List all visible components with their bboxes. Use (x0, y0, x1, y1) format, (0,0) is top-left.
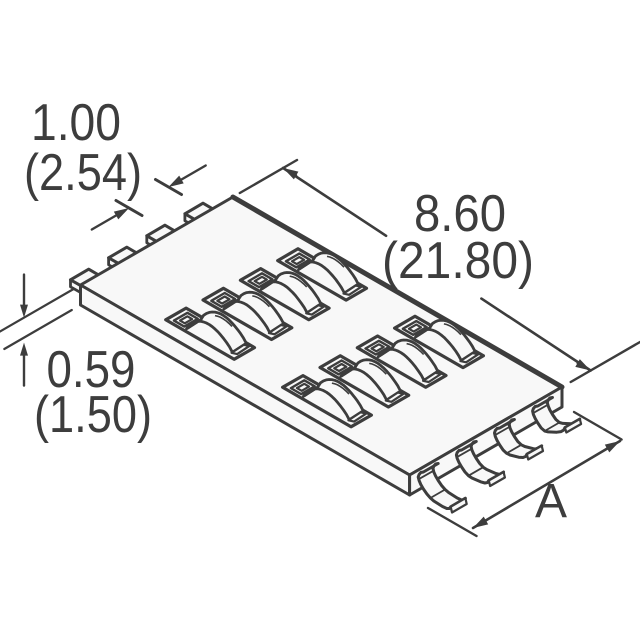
contact 3 arch base edge (263, 280, 277, 289)
dimension 1.00 tick upper (156, 180, 182, 195)
gull-wing leg 4 (533, 398, 580, 433)
svg-text:(1.50): (1.50) (34, 386, 152, 444)
contact 8 anchor plate (403, 321, 427, 335)
contact 7 arch base edge (379, 348, 393, 357)
contact 7 spring arch (378, 340, 438, 380)
contact 7 anchor plate (366, 341, 390, 355)
contact 8 spring arch (415, 320, 475, 360)
body NW ledge line (81, 204, 230, 290)
contact 2 anchor plate (211, 293, 235, 307)
contact 8 arch base edge (417, 328, 431, 337)
dimension 8.60 extension line from north corner (240, 160, 297, 193)
contact 6 spring arch (341, 360, 401, 400)
contact 4 tail (344, 286, 362, 295)
svg-text:(21.80): (21.80) (382, 232, 534, 290)
contact 5 anchor plate (291, 380, 315, 394)
contact 4 anchor plate (286, 254, 310, 268)
contact 2 spring arch (224, 292, 284, 332)
contact 1 tail (232, 345, 250, 354)
contact window 6 (320, 356, 409, 407)
contact 2 arch base edge (225, 300, 239, 309)
contact 6 tail (386, 393, 404, 402)
dimension 8.60 arrow upper-left (283, 168, 298, 179)
contact 4 arch base edge (300, 260, 314, 269)
gull-wing leg 1 (418, 464, 465, 509)
dimension 1.00 arrow pointing up-right (114, 208, 129, 219)
dimension 0.59 extension line bottom (4, 310, 72, 349)
contact 5 spring arch (303, 380, 363, 420)
contact window 5 (283, 376, 372, 427)
dimension 0.59 arrow pointing up (20, 343, 28, 356)
leg 4 tip end face (565, 419, 581, 433)
contact window 1 (166, 308, 255, 359)
gull-wing leg 2 (456, 442, 503, 484)
dimension 0.59 arrow pointing down (20, 305, 28, 318)
contact 8 tail (460, 353, 478, 362)
tab 2 (109, 258, 122, 272)
contact window 2 (203, 288, 292, 339)
dimension 0.59 extension line top (0, 289, 74, 333)
leg 3 tip end face (527, 446, 543, 460)
dimension 8.60 extension line from east corner (571, 342, 640, 382)
dimension A dimension line (473, 441, 620, 528)
contact 3 tail (306, 305, 324, 314)
dimension 1.00 tick lower (116, 201, 142, 216)
dimension A arrow lower-left (473, 517, 488, 528)
svg-text:(2.54): (2.54) (24, 144, 142, 202)
dimension A extension line right leg (574, 412, 622, 440)
dimension 1.00 arrow pointing down-left (169, 176, 184, 187)
body NE edge (thick) (233, 197, 562, 387)
body top face (81, 197, 563, 475)
contact 7 tail (423, 373, 441, 382)
contact 1 anchor plate (174, 313, 198, 327)
contact 4 spring arch (299, 253, 359, 293)
dimension A arrow upper-right (605, 441, 620, 452)
dimension A extension line left leg (428, 508, 477, 536)
leg 2 tip end face (489, 472, 505, 486)
tab 4 (185, 214, 198, 228)
dimension 8.60 dimension line (broken around text) (283, 168, 386, 236)
contact 5 tail (348, 412, 366, 421)
gull-wing leg 3 (495, 420, 542, 458)
contact 6 anchor plate (328, 361, 352, 375)
dimension 8.60 arrow lower-right (575, 359, 590, 370)
contact window 7 (357, 336, 446, 387)
contact 2 tail (269, 325, 287, 334)
body SW side face (81, 285, 410, 495)
body SE end face (410, 387, 562, 495)
contact 1 spring arch (187, 312, 247, 352)
contact 1 arch base edge (188, 320, 202, 329)
contact 6 arch base edge (342, 367, 356, 376)
tab 1 (71, 280, 84, 294)
contact window 8 (395, 316, 484, 367)
tab 3 (147, 236, 160, 250)
contact window 3 (240, 269, 329, 320)
contact window 4 (278, 249, 367, 300)
contact 3 spring arch (261, 273, 321, 313)
contact 5 arch base edge (305, 387, 319, 396)
svg-text:A: A (535, 475, 567, 528)
contact 3 anchor plate (249, 273, 273, 287)
leg 1 tip end face (451, 498, 467, 512)
